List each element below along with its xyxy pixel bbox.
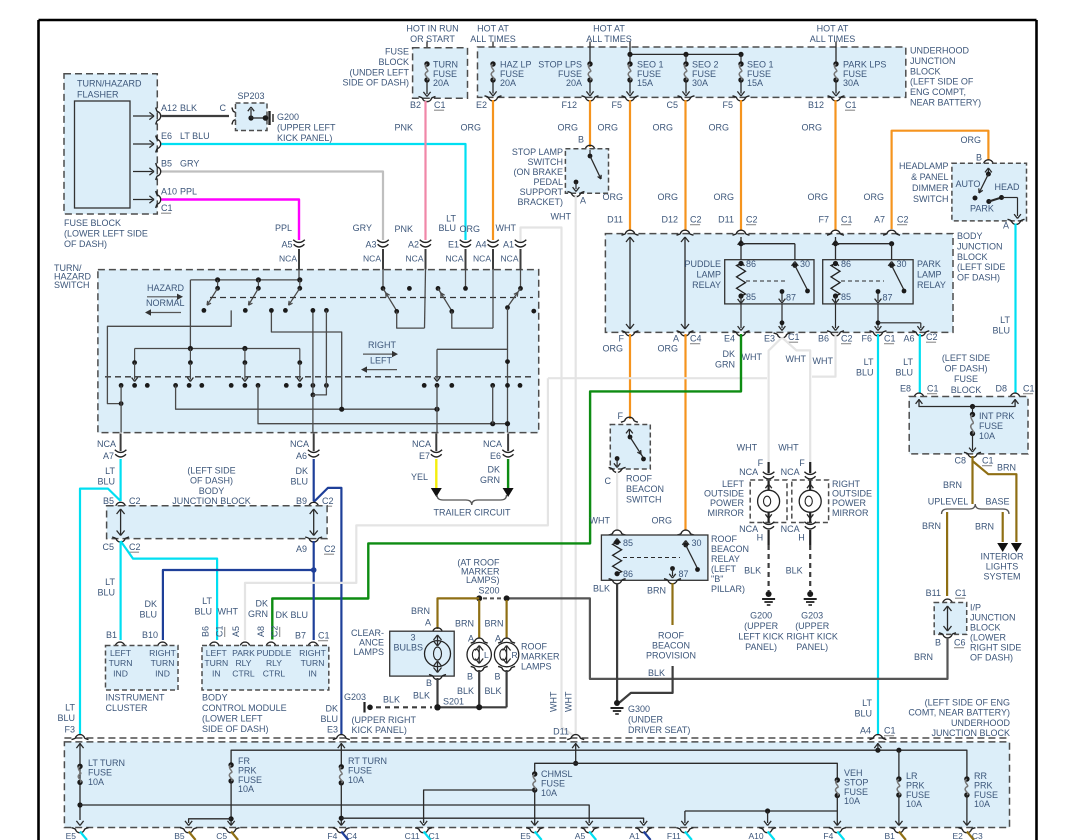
svg-text:(ON BRAKE: (ON BRAKE — [513, 167, 563, 177]
svg-text:ALL TIMES: ALL TIMES — [810, 34, 856, 44]
stop lamp switch box — [582, 145, 599, 150]
connector E3 top — [333, 735, 350, 740]
svg-text:C2: C2 — [129, 542, 141, 552]
interior lights arrows — [997, 543, 1008, 552]
svg-text:WHT: WHT — [549, 691, 559, 712]
flasher pin bump — [156, 108, 161, 125]
svg-text:HAZARD: HAZARD — [147, 283, 185, 293]
svg-text:INSTRUMENT: INSTRUMENT — [106, 693, 165, 703]
wire DK BLU B9 to E3 bottom — [314, 488, 342, 735]
svg-text:BLK: BLK — [413, 691, 430, 701]
svg-text:OF DASH): OF DASH) — [64, 239, 107, 249]
wire stub E5 — [535, 832, 542, 840]
wire LT BLU C5 branch to B6 — [121, 541, 218, 640]
wire WHT park rly ctrl A5 — [245, 378, 548, 640]
connector A2 — [420, 240, 432, 243]
bus to A5 — [80, 805, 589, 823]
contact wiring to A7 — [107, 310, 231, 403]
wire stub C11 — [424, 832, 431, 840]
bottom link wires — [176, 385, 437, 409]
A4 entry — [877, 743, 879, 750]
wire ORG A7 to headlamp switch B — [892, 131, 989, 229]
svg-text:E5: E5 — [66, 831, 77, 840]
svg-text:ORG: ORG — [960, 135, 981, 145]
svg-text:BEACON: BEACON — [626, 484, 664, 494]
flasher output arrow — [133, 115, 153, 117]
svg-text:C1: C1 — [955, 588, 967, 598]
svg-text:PNK: PNK — [394, 224, 413, 234]
svg-text:3: 3 — [410, 633, 415, 643]
svg-text:BASE: BASE — [985, 497, 1009, 507]
wire LT BLU C5 to B1 — [119, 541, 121, 640]
svg-text:C2: C2 — [324, 544, 336, 554]
svg-text:POWER: POWER — [832, 498, 867, 508]
svg-text:C4: C4 — [690, 334, 702, 344]
svg-text:D8: D8 — [995, 384, 1007, 394]
wire E1 into switch — [465, 270, 467, 288]
svg-text:C1: C1 — [884, 726, 896, 736]
svg-text:TURN/HAZARD: TURN/HAZARD — [77, 79, 142, 89]
svg-text:ORG: ORG — [459, 224, 480, 234]
svg-text:A1: A1 — [503, 240, 514, 250]
wire ORG F12 to stop lamp switch — [589, 100, 591, 147]
svg-text:WHT: WHT — [813, 356, 834, 366]
connector A5 bottom — [581, 828, 598, 833]
svg-text:PARK: PARK — [970, 204, 994, 214]
svg-text:WHT: WHT — [742, 352, 763, 362]
svg-text:C1: C1 — [884, 334, 896, 344]
svg-text:C2: C2 — [322, 496, 334, 506]
svg-text:SWITCH: SWITCH — [913, 194, 949, 204]
svg-text:D11: D11 — [553, 727, 569, 737]
svg-text:BEACON: BEACON — [711, 544, 749, 554]
svg-text:B: B — [494, 672, 500, 682]
svg-text:D11: D11 — [607, 215, 623, 225]
svg-text:BLOCK: BLOCK — [951, 385, 982, 395]
wire LT BLU A7 to B5 — [119, 459, 121, 501]
svg-text:ROOF: ROOF — [521, 642, 548, 652]
svg-text:30: 30 — [800, 259, 810, 269]
svg-text:C8: C8 — [954, 456, 966, 466]
svg-text:BLOCK: BLOCK — [910, 66, 941, 76]
svg-text:B11: B11 — [926, 588, 941, 598]
svg-text:BLU: BLU — [97, 477, 115, 487]
svg-text:TURN: TURN — [109, 658, 133, 668]
flasher output arrow — [133, 143, 153, 145]
svg-text:BLU: BLU — [194, 607, 212, 617]
svg-text:NCA: NCA — [781, 524, 800, 534]
svg-text:BRACKET): BRACKET) — [517, 197, 563, 207]
svg-text:ORG: ORG — [602, 344, 623, 354]
body junction block box — [605, 234, 953, 333]
svg-text:E4: E4 — [724, 334, 735, 344]
svg-text:F4: F4 — [327, 831, 337, 840]
svg-text:ORG: ORG — [807, 192, 828, 202]
svg-text:MARKER: MARKER — [521, 652, 560, 662]
svg-text:G200: G200 — [277, 112, 299, 122]
svg-text:C2: C2 — [841, 334, 853, 344]
svg-text:ENG COMPT,: ENG COMPT, — [910, 87, 966, 97]
svg-text:LT: LT — [864, 357, 874, 367]
connector A5 — [293, 240, 305, 243]
svg-text:KICK PANEL): KICK PANEL) — [352, 725, 407, 735]
svg-text:S200: S200 — [478, 586, 499, 596]
junction block pass-through arrows — [629, 237, 631, 329]
svg-text:BODY: BODY — [199, 486, 225, 496]
svg-text:BLK: BLK — [383, 695, 400, 705]
wire DK BLU branch to B10 — [311, 567, 317, 573]
roof beacon switch — [621, 417, 638, 422]
connector C8 C1 — [964, 452, 981, 457]
body junction block left box — [112, 502, 129, 507]
svg-text:C: C — [605, 476, 612, 486]
svg-text:BLOCK: BLOCK — [970, 623, 1001, 633]
svg-text:NORMAL: NORMAL — [146, 298, 185, 308]
svg-text:NCA: NCA — [446, 254, 464, 264]
svg-text:E6: E6 — [490, 451, 501, 461]
svg-text:WHT: WHT — [786, 354, 807, 364]
splice S201 — [434, 704, 440, 710]
svg-text:H: H — [757, 533, 764, 543]
svg-text:15A: 15A — [637, 78, 653, 88]
wire ORG F to roof beacon switch — [629, 334, 631, 419]
connector A1 bottom — [635, 828, 652, 833]
svg-text:B2: B2 — [410, 100, 421, 110]
svg-text:NCA: NCA — [363, 254, 381, 264]
svg-text:B: B — [935, 638, 941, 648]
svg-text:10A: 10A — [88, 777, 104, 787]
svg-text:BLU: BLU — [895, 368, 913, 378]
svg-text:UNDERHOOD: UNDERHOOD — [951, 718, 1011, 728]
turn switch B pivot — [436, 286, 441, 291]
svg-text:HOT AT: HOT AT — [477, 24, 509, 34]
svg-text:C1: C1 — [318, 631, 330, 641]
svg-text:A: A — [580, 196, 586, 206]
svg-text:PUDDLE: PUDDLE — [684, 259, 721, 269]
ground G300 — [614, 700, 620, 706]
svg-text:UNDERHOOD: UNDERHOOD — [910, 46, 970, 56]
stationary dots — [407, 286, 412, 291]
svg-text:A4: A4 — [860, 726, 871, 736]
svg-text:20A: 20A — [500, 78, 516, 88]
svg-text:C1: C1 — [845, 100, 857, 110]
svg-text:RELAY: RELAY — [711, 554, 740, 564]
svg-text:HOT AT: HOT AT — [817, 24, 849, 34]
svg-text:LEFT: LEFT — [370, 356, 393, 366]
lower turn bus — [135, 348, 300, 350]
svg-text:PILLAR): PILLAR) — [711, 584, 745, 594]
svg-text:RLY: RLY — [266, 658, 282, 668]
svg-text:LT: LT — [903, 357, 913, 367]
svg-text:G203: G203 — [801, 611, 823, 621]
svg-text:GRN: GRN — [248, 609, 268, 619]
svg-text:85: 85 — [623, 538, 633, 548]
svg-text:ALL TIMES: ALL TIMES — [586, 34, 632, 44]
svg-text:ORG: ORG — [657, 192, 678, 202]
hazard bus — [190, 279, 299, 281]
connector D11 — [622, 230, 639, 235]
svg-text:(LOWER: (LOWER — [970, 633, 1007, 643]
svg-text:NCA: NCA — [501, 254, 519, 264]
svg-text:C5: C5 — [102, 542, 114, 552]
turn contact arm — [134, 349, 136, 363]
svg-text:C1: C1 — [434, 100, 446, 110]
svg-text:OR START: OR START — [410, 34, 455, 44]
svg-text:SIDE OF DASH): SIDE OF DASH) — [342, 78, 409, 88]
svg-text:10A: 10A — [974, 799, 990, 809]
wire LT BLU F6 to A4 — [877, 334, 879, 734]
svg-text:B5: B5 — [174, 831, 185, 840]
turn/hazard switch box — [98, 270, 539, 433]
svg-text:FUSE: FUSE — [385, 47, 409, 57]
svg-text:BLU: BLU — [57, 713, 75, 723]
wire GRY B5 to A3 — [162, 172, 384, 241]
svg-text:NCA: NCA — [739, 524, 758, 534]
svg-text:CONTROL MODULE: CONTROL MODULE — [202, 703, 287, 713]
svg-text:PANEL): PANEL) — [745, 642, 777, 652]
svg-text:ORG: ORG — [557, 123, 578, 133]
wires BLK lamps to S201 — [436, 678, 438, 707]
svg-text:BLU: BLU — [97, 588, 115, 598]
svg-text:PNK: PNK — [394, 123, 413, 133]
fuse TURN FUSE 20A — [424, 61, 429, 66]
svg-text:DK: DK — [722, 349, 735, 359]
svg-text:A: A — [1003, 221, 1009, 231]
svg-text:SIDE OF DASH): SIDE OF DASH) — [202, 724, 269, 734]
wire ORG B12 to F7 — [834, 100, 836, 231]
svg-text:TURN: TURN — [151, 658, 175, 668]
svg-text:BLK: BLK — [648, 668, 665, 678]
svg-text:(LEFT: (LEFT — [711, 564, 737, 574]
svg-text:RIGHT: RIGHT — [368, 340, 397, 350]
svg-text:OF DASH): OF DASH) — [970, 653, 1013, 663]
svg-text:DRIVER SEAT): DRIVER SEAT) — [628, 725, 690, 735]
svg-text:30A: 30A — [692, 78, 708, 88]
SEO fuse bus — [630, 53, 741, 55]
svg-text:BLK: BLK — [484, 686, 501, 696]
turn/hazard flasher box — [64, 74, 157, 214]
svg-text:BRN: BRN — [943, 480, 962, 490]
wire A2 into switch — [425, 270, 426, 329]
trailer circuit brace — [437, 495, 507, 505]
svg-text:LAMP: LAMP — [917, 269, 942, 279]
svg-text:BLOCK: BLOCK — [957, 252, 988, 262]
svg-text:10A: 10A — [906, 799, 922, 809]
svg-text:HOT IN RUN: HOT IN RUN — [406, 24, 458, 34]
svg-text:30: 30 — [692, 538, 702, 548]
underhood junction block bottom box — [64, 737, 1009, 739]
svg-text:F: F — [619, 334, 625, 344]
svg-text:CTRL: CTRL — [263, 668, 286, 678]
svg-text:BLK: BLK — [457, 686, 474, 696]
wire WHT park rly ctrl horizontal — [548, 377, 767, 379]
svg-text:HEAD: HEAD — [995, 182, 1021, 192]
svg-text:LEFT: LEFT — [722, 479, 745, 489]
fuse SEO 1 FUSE 15A — [627, 61, 632, 66]
wire stub A10 — [768, 832, 775, 840]
svg-text:B6: B6 — [818, 334, 829, 344]
svg-text:S201: S201 — [443, 697, 464, 707]
wire BLK A12 to SP203 — [162, 115, 230, 117]
connector A4 — [487, 240, 499, 243]
svg-text:SP203: SP203 — [237, 91, 264, 101]
svg-text:INTERIOR: INTERIOR — [980, 552, 1024, 562]
svg-text:LIGHTS: LIGHTS — [986, 562, 1019, 572]
svg-text:LT: LT — [1000, 315, 1010, 325]
svg-text:NCA: NCA — [290, 439, 309, 449]
wire YEL E7 trailer — [435, 459, 437, 488]
fuse RT TURN FUSE 10A — [340, 743, 342, 767]
wire stub E2 — [967, 832, 974, 840]
connector E7 from switch — [435, 434, 437, 452]
svg-text:D11: D11 — [718, 215, 734, 225]
svg-text:F: F — [799, 458, 805, 468]
svg-text:F: F — [618, 411, 624, 421]
turn contact arm — [189, 349, 191, 363]
svg-text:B7: B7 — [295, 631, 306, 641]
svg-text:BLU: BLU — [854, 709, 872, 719]
wire BLK provision to G300 — [620, 666, 673, 703]
svg-text:GRN: GRN — [715, 360, 735, 370]
svg-text:F4: F4 — [823, 831, 833, 840]
connector F4 C4 bottom — [333, 828, 350, 833]
svg-text:86: 86 — [841, 259, 851, 269]
svg-text:F6: F6 — [861, 334, 872, 344]
svg-text:BRN: BRN — [997, 463, 1016, 473]
svg-text:LT: LT — [202, 596, 212, 606]
svg-text:IN: IN — [308, 668, 317, 678]
svg-text:BLK: BLK — [744, 566, 761, 576]
svg-text:DK: DK — [487, 465, 500, 475]
svg-text:WHT: WHT — [496, 223, 517, 233]
svg-text:86: 86 — [623, 569, 633, 579]
svg-text:NCA: NCA — [473, 254, 491, 264]
svg-text:(LOWER LEFT SIDE: (LOWER LEFT SIDE — [64, 228, 148, 238]
wire WHT stop lamp switch to D11 — [575, 196, 577, 734]
svg-text:CLUSTER: CLUSTER — [106, 703, 149, 713]
flasher output arrow — [133, 171, 153, 173]
svg-text:BODY: BODY — [957, 231, 983, 241]
wire ORG F5 to D11 — [629, 100, 631, 231]
svg-text:DK: DK — [325, 704, 338, 714]
svg-text:10A: 10A — [541, 788, 557, 798]
svg-text:(UPPER LEFT: (UPPER LEFT — [277, 122, 336, 132]
svg-text:G300: G300 — [628, 704, 650, 714]
wire ORG F5 to D11 second — [740, 100, 742, 231]
svg-text:NCA: NCA — [412, 439, 431, 449]
svg-text:PARK: PARK — [917, 259, 941, 269]
svg-text:E3: E3 — [764, 334, 775, 344]
svg-text:LT: LT — [105, 466, 115, 476]
connector E2 — [485, 96, 502, 101]
svg-text:STOP LAMP: STOP LAMP — [512, 147, 563, 157]
svg-text:(UNDER LEFT: (UNDER LEFT — [349, 67, 409, 77]
svg-text:JUNCTION: JUNCTION — [910, 56, 956, 66]
wire B C6 to S200 — [508, 598, 948, 679]
svg-text:OUTSIDE: OUTSIDE — [704, 489, 744, 499]
headlamp and panel dimmer switch — [980, 160, 997, 165]
wire DK GRN E4 to puddle rly ctrl A8 — [272, 334, 741, 640]
svg-text:RIGHT: RIGHT — [832, 479, 861, 489]
fuse SEO 2 FUSE 30A — [683, 61, 688, 66]
svg-text:TURN: TURN — [301, 658, 325, 668]
flasher pin bump — [156, 136, 161, 153]
mechanical link dashed — [210, 297, 533, 299]
svg-text:(LEFT SIDE OF ENG: (LEFT SIDE OF ENG — [925, 698, 1010, 708]
svg-text:BLU: BLU — [438, 223, 456, 233]
svg-text:(LOWER LEFT: (LOWER LEFT — [202, 714, 263, 724]
wire LT BLU A6 to E8 — [919, 334, 921, 393]
wire BRN C8 to uplevel/base — [971, 456, 973, 504]
svg-text:A8: A8 — [256, 626, 266, 637]
svg-text:F7: F7 — [818, 215, 829, 225]
svg-text:C2: C2 — [897, 215, 909, 225]
svg-text:LAMPS: LAMPS — [521, 662, 552, 672]
svg-text:A7: A7 — [874, 215, 885, 225]
svg-text:NCA: NCA — [739, 467, 758, 477]
svg-text:B6: B6 — [201, 626, 211, 637]
svg-text:RLY: RLY — [235, 658, 251, 668]
svg-text:ORG: ORG — [713, 192, 734, 202]
bottom connectors of body junction block — [622, 331, 639, 336]
svg-text:BRN: BRN — [975, 522, 994, 532]
hazard switch contact — [297, 277, 302, 282]
svg-text:BLOCK: BLOCK — [378, 57, 409, 67]
wire A4 into switch — [492, 270, 494, 329]
flasher pin bump — [156, 191, 161, 208]
svg-text:WHT: WHT — [564, 691, 574, 712]
connector C11 C1 bottom — [415, 828, 432, 833]
svg-text:A10: A10 — [748, 831, 763, 840]
svg-text:BRN: BRN — [647, 586, 666, 596]
svg-text:AUTO: AUTO — [956, 179, 981, 189]
wire BRN S200 to clearance lamps — [438, 598, 480, 629]
connector C5 — [678, 96, 695, 101]
svg-text:INT PRK: INT PRK — [979, 411, 1014, 421]
svg-text:LT: LT — [862, 698, 872, 708]
svg-text:D12: D12 — [661, 215, 678, 225]
svg-text:A7: A7 — [103, 451, 114, 461]
ground G203 inline — [376, 706, 432, 708]
svg-text:ORG: ORG — [657, 344, 678, 354]
right lower link — [436, 349, 438, 379]
svg-text:B5: B5 — [103, 496, 114, 506]
svg-text:WHT: WHT — [778, 443, 799, 453]
svg-text:I/P: I/P — [970, 603, 981, 613]
svg-text:30: 30 — [897, 259, 907, 269]
wire BRN 87 roof beacon provision — [671, 583, 673, 625]
wire DK BLU A9 to B7 — [313, 541, 315, 640]
fuse PARK LPS FUSE 30A — [833, 61, 838, 66]
svg-text:B: B — [976, 153, 982, 163]
svg-text:30A: 30A — [843, 78, 859, 88]
svg-text:OUTSIDE: OUTSIDE — [832, 489, 872, 499]
svg-text:C1: C1 — [982, 456, 994, 466]
svg-text:G200: G200 — [750, 611, 772, 621]
svg-text:FUSE BLOCK: FUSE BLOCK — [64, 218, 121, 228]
svg-text:DK: DK — [295, 466, 308, 476]
svg-text:C1: C1 — [1023, 384, 1035, 394]
svg-text:ORG: ORG — [863, 192, 884, 202]
svg-text:85: 85 — [746, 292, 756, 302]
svg-text:NCA: NCA — [483, 439, 502, 449]
wire BRN uplevel to B11 — [946, 512, 948, 596]
ground G200 inline — [263, 115, 269, 121]
wire ORG C5 to D12 — [684, 100, 686, 231]
svg-text:MIRROR: MIRROR — [832, 508, 869, 518]
svg-text:E7: E7 — [419, 451, 430, 461]
svg-text:BLU: BLU — [139, 610, 157, 620]
